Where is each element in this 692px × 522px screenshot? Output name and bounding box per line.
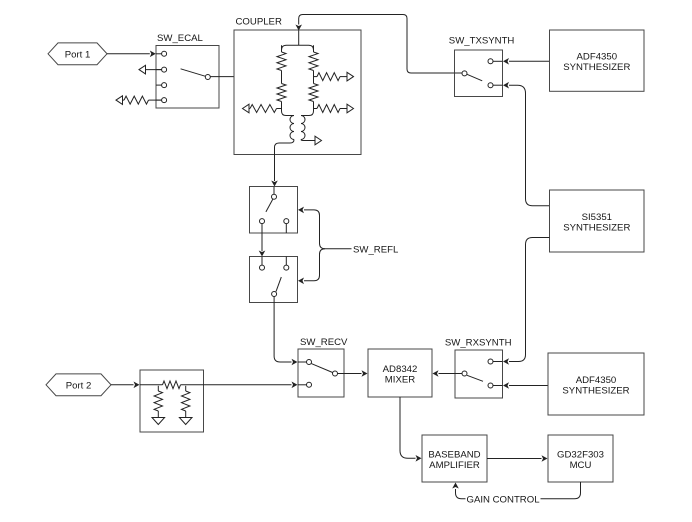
svg-text:AMPLIFIER: AMPLIFIER <box>429 460 480 471</box>
svg-text:MCU: MCU <box>570 460 592 471</box>
svg-text:MIXER: MIXER <box>385 374 415 385</box>
svg-text:Port 2: Port 2 <box>66 381 92 392</box>
svg-text:SW_RXSYNTH: SW_RXSYNTH <box>445 337 512 348</box>
svg-text:COUPLER: COUPLER <box>236 16 282 27</box>
svg-text:SW_TXSYNTH: SW_TXSYNTH <box>449 36 515 47</box>
svg-text:SYNTHESIZER: SYNTHESIZER <box>563 62 630 73</box>
svg-text:GAIN CONTROL: GAIN CONTROL <box>467 494 541 505</box>
svg-text:SW_REFL: SW_REFL <box>353 244 399 255</box>
svg-text:SW_ECAL: SW_ECAL <box>157 33 204 44</box>
svg-text:SW_RECV: SW_RECV <box>300 337 348 348</box>
svg-text:Port 1: Port 1 <box>65 50 91 61</box>
svg-text:SYNTHESIZER: SYNTHESIZER <box>563 222 630 233</box>
svg-text:SYNTHESIZER: SYNTHESIZER <box>562 385 629 396</box>
